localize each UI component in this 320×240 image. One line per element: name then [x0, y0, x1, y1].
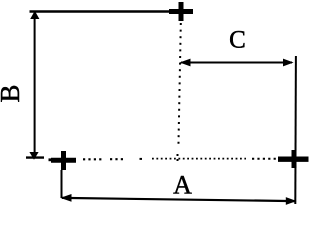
svg-text:A: A [173, 171, 192, 200]
extension line bottom-left [61, 170, 63, 198]
dash before left cross [49, 158, 58, 161]
dotted line horizontal segment 1 [83, 158, 104, 160]
dimension line B [34, 13, 36, 156]
svg-text:B: B [0, 84, 25, 102]
dimension line A [62, 198, 295, 201]
extension line right [294, 56, 297, 204]
arrowhead A left [60, 194, 71, 202]
datum cross bottom-right [278, 150, 309, 168]
top edge line [30, 10, 177, 13]
datum cross top [169, 2, 193, 21]
arrowhead B top [30, 11, 39, 19]
dotted line horizontal segment 1b [110, 158, 125, 160]
arrowhead C right [283, 59, 294, 67]
dotted line horizontal lone dot [140, 158, 143, 160]
datum cross bottom-left [51, 151, 76, 170]
svg-text:C: C [229, 27, 246, 54]
dotted centerline vertical [178, 23, 180, 148]
dotted line horizontal segment 3 [252, 158, 277, 160]
dotted line horizontal segment 2 [152, 158, 246, 160]
arrowhead A right [286, 197, 297, 205]
dimension line C [181, 62, 292, 64]
dotted cross at node [177, 154, 179, 161]
tick through B arrow [26, 156, 44, 158]
arrowhead B bottom [29, 152, 38, 160]
arrowhead C left [180, 59, 191, 67]
